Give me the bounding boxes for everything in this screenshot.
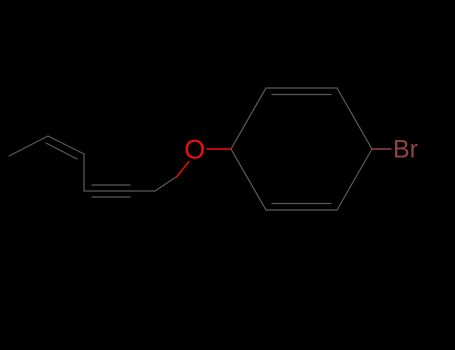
wire ring edge TR-R xyxy=(337,88,372,149)
wire O-CH2 bond carbon half (gray) xyxy=(155,177,176,191)
wire triple-bond lower parallel line xyxy=(92,196,130,198)
wire O-ring bond (red) xyxy=(207,148,231,150)
wire ring edge BR-BL inner double-bond line xyxy=(272,203,331,205)
wire terminal CH3 bond xyxy=(9,136,48,156)
wire C=C double bond inner line xyxy=(46,143,77,159)
wire ring-Br bond (maroon) xyxy=(372,148,391,150)
wire triple-bond upper parallel line xyxy=(92,184,130,186)
wire vertical allylic C-C bond xyxy=(83,154,85,191)
wire horizontal alkyne run xyxy=(84,190,155,192)
svg-text:Br: Br xyxy=(393,136,418,164)
wire ring edge BL-L xyxy=(231,149,266,210)
wire ring edge L-TL xyxy=(231,88,266,149)
svg-text:O: O xyxy=(184,134,205,164)
wire ring edge TL-TR (double bond outer) xyxy=(266,87,337,89)
wire ring edge TL-TR inner double-bond line xyxy=(272,94,331,96)
wire ring edge BR-BL (double bond outer) xyxy=(266,209,337,211)
wire C=C double bond main line xyxy=(48,136,84,154)
wire ring edge R-BR xyxy=(337,149,372,210)
wire O-CH2 bond oxygen half (red) xyxy=(176,162,189,178)
